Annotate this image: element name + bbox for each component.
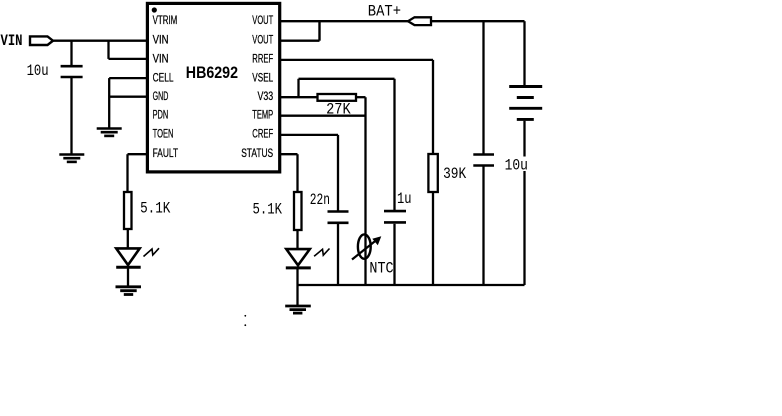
ground below GND pin bbox=[97, 129, 122, 136]
wire C2 to ground rail bbox=[337, 224, 339, 285]
svg-text:HB6292: HB6292 bbox=[186, 63, 238, 82]
wire VOUT pin15 joining bbox=[280, 21, 320, 41]
wire RREF to R3 39K bbox=[280, 60, 434, 154]
svg-text:VIN: VIN bbox=[153, 54, 169, 66]
svg-text:NTC: NTC bbox=[369, 260, 393, 278]
connector BAT+ tag bbox=[408, 17, 431, 25]
ground below C1 bbox=[59, 155, 84, 162]
wire D1 to ground bbox=[127, 267, 129, 286]
wire ground rail bbox=[298, 284, 525, 286]
wire battery to ground rail bbox=[523, 121, 525, 285]
resistor R3 39K bbox=[428, 154, 437, 192]
ground below D1 bbox=[116, 287, 142, 295]
svg-text:CREF: CREF bbox=[252, 129, 273, 141]
svg-text:FAULT: FAULT bbox=[153, 148, 179, 160]
capacitor C1 10u bbox=[61, 66, 83, 77]
svg-text:VSEL: VSEL bbox=[252, 72, 273, 84]
resistor R2 27K bbox=[318, 94, 357, 101]
svg-text:1u: 1u bbox=[397, 190, 412, 208]
svg-text:STATUS: STATUS bbox=[241, 148, 273, 160]
wire D2 to ground rail and ground bbox=[296, 268, 298, 305]
thermistor NTC bbox=[352, 234, 381, 259]
wire VIN branch down to VIN pin3 bbox=[109, 41, 148, 59]
svg-text:VOUT: VOUT bbox=[252, 34, 273, 46]
wire CELL/GND vertical to ground bbox=[108, 78, 110, 128]
wire VIN tag to VIN pin2 bbox=[53, 40, 147, 42]
capacitor C3 1u bbox=[384, 211, 406, 222]
wire FAULT pin down bbox=[128, 154, 148, 192]
svg-text:5.1K: 5.1K bbox=[140, 200, 171, 218]
wire C3 to ground rail bbox=[393, 224, 395, 285]
svg-text:BAT+: BAT+ bbox=[368, 2, 401, 20]
svg-text:PDN: PDN bbox=[153, 110, 169, 122]
wire C4 to ground rail bbox=[482, 167, 484, 286]
svg-text:VOUT: VOUT bbox=[252, 15, 273, 27]
wire R1 to LED D1 bbox=[127, 229, 129, 249]
svg-text:5.1K: 5.1K bbox=[253, 201, 283, 219]
svg-text:VIN: VIN bbox=[153, 34, 169, 46]
wire C1 to ground bbox=[70, 78, 72, 154]
svg-text:TOEN: TOEN bbox=[153, 129, 174, 141]
wire CELL pin to vertical bbox=[109, 77, 147, 79]
wire CREF pin to C2 22n bbox=[280, 135, 339, 211]
connector VIN tag bbox=[30, 36, 53, 45]
LED D1 bbox=[116, 248, 159, 267]
IC U1 HB6292 body bbox=[147, 3, 279, 172]
wire junction to C1 bbox=[70, 41, 72, 65]
wire VOUT pin16 to BAT+ line bbox=[280, 20, 410, 22]
wire BAT+ down to battery BT1 bbox=[523, 21, 525, 85]
wire V33 branch up and over to C3 1u bbox=[299, 79, 395, 211]
capacitor C2 22n bbox=[328, 212, 349, 223]
capacitor C4 10u bbox=[473, 155, 494, 166]
wire V33 pin to R2 27K bbox=[280, 96, 318, 98]
svg-text:V33: V33 bbox=[258, 91, 274, 103]
svg-text:10u: 10u bbox=[505, 157, 528, 175]
wire BAT+ down to C4 10u bbox=[482, 21, 484, 154]
resistor R1 5.1K (FAULT) bbox=[124, 192, 132, 229]
ground below D2 bbox=[285, 306, 311, 313]
value label 10u (C4) bbox=[503, 157, 532, 172]
svg-text:VTRIM: VTRIM bbox=[153, 15, 178, 27]
wire R3 to ground rail bbox=[432, 192, 434, 285]
svg-text:39K: 39K bbox=[443, 165, 467, 183]
wire BAT+ tag to battery branch bbox=[431, 20, 525, 22]
wire TEMP pin bbox=[280, 115, 366, 117]
battery BT1 bbox=[509, 87, 542, 120]
resistor R4 5.1K (STATUS) bbox=[294, 192, 302, 230]
stray dot 2 bbox=[244, 324, 246, 326]
wire GND pin to vertical bbox=[109, 96, 147, 98]
svg-text:10u: 10u bbox=[27, 62, 49, 80]
svg-text:GND: GND bbox=[153, 91, 169, 103]
stray dot 1 bbox=[244, 315, 246, 317]
wire R2 right end down to TEMP and NTC bbox=[356, 97, 366, 285]
svg-text:RREF: RREF bbox=[252, 54, 273, 66]
svg-text:TEMP: TEMP bbox=[252, 110, 273, 122]
svg-text:VIN: VIN bbox=[1, 32, 23, 50]
wire R4 to LED D2 bbox=[296, 230, 298, 249]
wire STATUS pin down bbox=[280, 154, 298, 192]
LED D2 bbox=[286, 249, 330, 268]
svg-text:CELL: CELL bbox=[153, 72, 174, 84]
svg-text:22n: 22n bbox=[310, 191, 330, 209]
